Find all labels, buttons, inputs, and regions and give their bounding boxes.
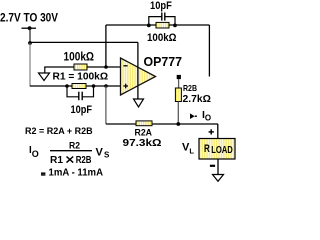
pin plus <box>123 85 128 87</box>
ground (inverting network) <box>39 73 50 81</box>
wire sense vertical <box>208 25 210 77</box>
svg-text:R1: R1 <box>50 155 63 166</box>
node feedback right dot <box>173 24 177 28</box>
svg-text:R2 = R2A + R2B: R2 = R2A + R2B <box>25 126 93 136</box>
svg-text:V: V <box>96 146 104 158</box>
wire ground riser <box>44 67 46 73</box>
label plus <box>209 131 214 133</box>
wire V+ / V- supply line through op-amp <box>137 42 139 99</box>
svg-text:R1 = 100kΩ: R1 = 100kΩ <box>53 72 109 83</box>
svg-text:R2B: R2B <box>76 155 92 166</box>
op-amp U1 OP777 <box>121 58 156 95</box>
wire supply vertical upper <box>29 28 31 43</box>
svg-text:R: R <box>204 143 210 155</box>
svg-text:L: L <box>189 147 194 156</box>
wire noninverting to VL <box>105 86 107 124</box>
svg-text:10pF: 10pF <box>71 104 93 116</box>
formula fraction bar <box>50 150 92 152</box>
capacitor plates top <box>161 13 163 21</box>
wire VL <box>106 123 218 125</box>
resistor R2B 2.7k <box>175 88 181 102</box>
node supply junction dot <box>28 41 32 45</box>
arrow Io <box>190 113 195 119</box>
wire load bottom lead <box>217 159 219 174</box>
resistor R1 100k <box>72 84 86 89</box>
wire feedback top <box>106 24 209 26</box>
node R1 left dot <box>65 84 69 88</box>
svg-text:O: O <box>32 149 39 159</box>
capacitor plates lower <box>78 92 80 101</box>
svg-text:1mA - 11mA: 1mA - 11mA <box>49 167 104 178</box>
resistor 100k to ground <box>74 64 87 70</box>
svg-text:R2: R2 <box>69 141 80 152</box>
svg-text:2.7V TO 30V: 2.7V TO 30V <box>0 11 58 24</box>
svg-text:R2B: R2B <box>183 84 197 93</box>
svg-text:OP777: OP777 <box>144 54 183 69</box>
resistor 100k feedback <box>156 22 169 28</box>
node noninverting junction dot <box>104 84 108 88</box>
svg-text:O: O <box>205 114 211 123</box>
wire supply rail <box>30 41 138 43</box>
wire left rail down <box>29 43 31 87</box>
node feedback left dot <box>147 24 151 28</box>
resistor R LOAD <box>199 139 235 160</box>
supply terminal bar <box>22 27 37 29</box>
wire R2B top lead <box>178 79 180 88</box>
resistor R2A 97.3k <box>136 121 152 126</box>
wire noninverting input <box>30 85 121 87</box>
svg-text:2.7kΩ: 2.7kΩ <box>183 94 212 105</box>
wire inverting input <box>44 66 120 68</box>
wire R2B bottom lead <box>177 102 179 125</box>
svg-text:97.3kΩ: 97.3kΩ <box>123 137 162 149</box>
wire feedback vertical <box>105 25 107 67</box>
svg-text:R2A: R2A <box>135 127 153 137</box>
node VL junction dot <box>176 122 180 126</box>
pin minus <box>123 65 127 67</box>
node output square dot <box>177 75 181 79</box>
node inverting junction dot <box>104 65 108 69</box>
wire load top <box>217 124 219 139</box>
ground (load) <box>213 175 224 182</box>
label minus <box>210 165 215 167</box>
capacitor 10pF lower bracket <box>67 86 94 97</box>
formula equals <box>41 172 45 174</box>
svg-text:10pF: 10pF <box>150 0 172 12</box>
svg-text:100kΩ: 100kΩ <box>147 32 177 44</box>
svg-text:100kΩ: 100kΩ <box>64 50 95 63</box>
supply terminal dot <box>28 26 32 30</box>
svg-text:LOAD: LOAD <box>211 145 233 156</box>
node R1 right dot <box>92 84 96 88</box>
svg-text:S: S <box>104 150 110 159</box>
capacitor C 10pF top bracket <box>149 17 175 25</box>
ground (op-amp) <box>134 99 144 107</box>
